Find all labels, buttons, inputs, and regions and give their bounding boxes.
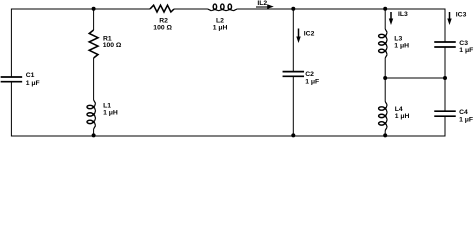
node dot mid C3/C4 (443, 76, 447, 80)
svg-text:C3: C3 (459, 40, 468, 47)
svg-text:1 μF: 1 μF (459, 47, 473, 54)
svg-text:IL2: IL2 (257, 0, 267, 7)
wire C1 bottom, bottom rail, up to C4 (11, 82, 445, 136)
capacitor C1 (1, 77, 23, 82)
wire C2 to bottom (292, 76, 294, 136)
wire top to C2 (292, 9, 294, 72)
current arrow IL3 (389, 12, 393, 25)
wire top-left: C1 top to top rail start (11, 9, 150, 77)
inductor L2 (208, 4, 237, 11)
svg-text:1 μF: 1 μF (305, 78, 319, 85)
node dot mid L3/L4 (383, 76, 387, 80)
wire L4 to bottom (384, 130, 386, 136)
node dot bottom L4 (383, 133, 387, 137)
wire R1 to L1 (93, 58, 95, 100)
inductor L1 (87, 100, 96, 129)
wire mid node to L4 (384, 78, 386, 102)
svg-text:100 Ω: 100 Ω (103, 42, 122, 49)
svg-text:1 μH: 1 μH (394, 42, 409, 49)
node dot bottom R1 branch (92, 133, 96, 137)
resistor R1 (89, 30, 98, 58)
wire L3 to mid node (384, 58, 386, 78)
wire mid rail L3 to C3 (385, 77, 445, 79)
resistor R2 (150, 5, 174, 12)
inductor L3 (379, 29, 388, 58)
current arrow IC2 (296, 29, 300, 44)
wire L1 to bottom (93, 129, 95, 136)
wire L2 to right corner, down to C3 (237, 9, 445, 42)
svg-text:IC3: IC3 (456, 11, 467, 18)
svg-text:C1: C1 (26, 72, 35, 79)
svg-text:L4: L4 (395, 106, 403, 113)
svg-text:R2: R2 (159, 18, 168, 25)
wire top to L3 (384, 9, 386, 29)
svg-text:IL3: IL3 (398, 11, 408, 18)
current arrow IC3 (447, 12, 451, 25)
svg-text:C4: C4 (459, 109, 468, 116)
svg-text:1 μH: 1 μH (213, 25, 228, 32)
wire R2 to L2 (174, 8, 208, 10)
capacitor C3 (434, 42, 456, 47)
svg-text:L2: L2 (216, 18, 224, 25)
node dot top L3 branch (383, 7, 387, 11)
svg-text:1 μH: 1 μH (103, 110, 118, 117)
capacitor C2 (283, 72, 305, 77)
svg-text:C2: C2 (305, 71, 314, 78)
node dot bottom C2 branch (291, 133, 295, 137)
node dot top C2 branch (291, 7, 295, 11)
inductor L4 (379, 102, 388, 131)
svg-text:IC2: IC2 (304, 31, 315, 38)
svg-text:1 μF: 1 μF (26, 80, 40, 87)
svg-text:100 Ω: 100 Ω (153, 25, 172, 32)
svg-text:1 μH: 1 μH (395, 113, 410, 120)
wire top to R1 (93, 9, 95, 30)
wire mid node to C4 (444, 78, 446, 111)
capacitor C4 (434, 111, 456, 116)
current arrow IL2 (256, 4, 274, 9)
svg-text:1 μF: 1 μF (459, 116, 473, 123)
node dot top R1 (92, 7, 96, 11)
wire C3 to mid node (444, 47, 446, 78)
